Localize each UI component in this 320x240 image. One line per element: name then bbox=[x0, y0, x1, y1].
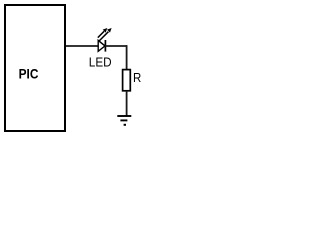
LED D1 diode triangle bbox=[98, 40, 105, 51]
LED cathode bar bbox=[104, 40, 106, 52]
ground bar 1 bbox=[117, 115, 131, 117]
ground bar 3 bbox=[124, 124, 126, 126]
wire corner down to resistor bbox=[126, 45, 128, 70]
LED emission arrow 2 bbox=[98, 28, 108, 38]
resistor R body bbox=[123, 70, 131, 91]
wire LED cathode to corner bbox=[105, 45, 127, 47]
svg-text:R: R bbox=[133, 71, 142, 86]
svg-text:PIC: PIC bbox=[19, 66, 39, 82]
ground bar 2 bbox=[120, 119, 127, 121]
svg-text:LED: LED bbox=[89, 55, 112, 70]
LED emission arrow 1 bbox=[99, 28, 111, 41]
PIC microcontroller box U1 bbox=[5, 5, 65, 131]
wire resistor to ground bbox=[126, 91, 128, 116]
wire from PIC to LED anode bbox=[66, 45, 99, 47]
